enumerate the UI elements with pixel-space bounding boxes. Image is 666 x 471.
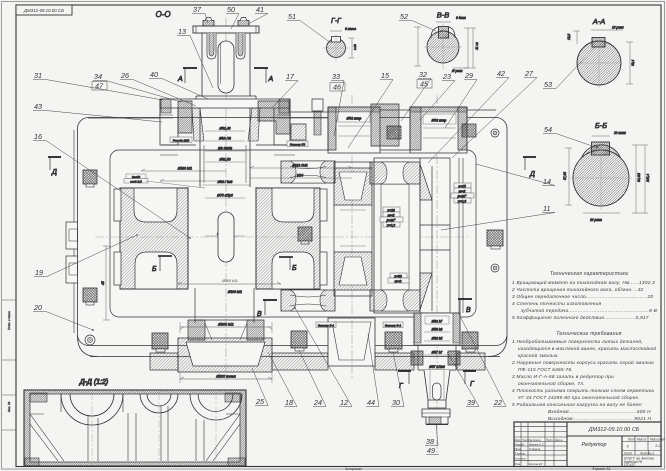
- svg-text:54: 54: [544, 125, 552, 134]
- axis 1 centerline: [225, 18, 227, 380]
- flange bolt left: [203, 18, 214, 27]
- section view Б-Б label: [595, 121, 607, 130]
- svg-text:Подп. и дата: Подп. и дата: [7, 311, 11, 330]
- oil sump under axis 1: [178, 338, 272, 372]
- Д-Д ribs: [88, 406, 204, 461]
- svg-text:Д: Д: [51, 169, 57, 176]
- svg-text:4 Степень точности изготовлени: 4 Степень точности изготовления: [512, 301, 602, 306]
- svg-text:М24: М24: [297, 174, 304, 178]
- section view В-В label: [437, 11, 450, 20]
- callout 11: [441, 204, 555, 230]
- svg-text:14: 14: [543, 177, 551, 186]
- svg-text:31: 31: [34, 71, 42, 80]
- svg-text:50: 50: [227, 5, 235, 14]
- svg-text:23: 23: [442, 72, 451, 81]
- svg-text:Ø38 h5: Ø38 h5: [431, 337, 443, 341]
- Д-Д label: [79, 379, 109, 386]
- svg-text:Козлов Е.Г.: Козлов Е.Г.: [529, 462, 544, 466]
- svg-text:з.ив: з.ив: [353, 44, 357, 51]
- svg-text:ПЗ-433: ПЗ-433: [624, 463, 635, 467]
- svg-text:окончательной сборке, 7л.: окончательной сборке, 7л.: [518, 380, 585, 386]
- section circle А-А: [567, 26, 635, 89]
- gear hub column with oval lightening hole: [188, 187, 256, 288]
- svg-text:Ø58 h8: Ø58 h8: [431, 328, 443, 332]
- big gear on axis 1 : right half: [256, 188, 327, 289]
- svg-text:45: 45: [420, 80, 429, 89]
- callout 50: [226, 5, 239, 29]
- svg-text:Ø62 клар: Ø62 клар: [431, 119, 447, 123]
- bearing sump under axis 2: [328, 318, 375, 366]
- svg-text:УГ-34 ГОСТ 24285-80 при оконча: УГ-34 ГОСТ 24285-80 при окончательной сб…: [518, 394, 640, 400]
- bolt boss on axis3 cap: [462, 124, 476, 137]
- svg-text:46: 46: [333, 83, 341, 92]
- svg-text:красной эмалью.: красной эмалью.: [518, 352, 559, 358]
- callout 40: [149, 70, 208, 99]
- svg-text:40: 40: [150, 70, 158, 79]
- axis1 cap bolts: [159, 99, 291, 118]
- callout 20: [33, 303, 94, 331]
- spool upper left of axis2: [281, 161, 335, 183]
- svg-text:ДМ312-09.10.00 СБ: ДМ312-09.10.00 СБ: [588, 427, 640, 433]
- callout 51: [287, 12, 331, 43]
- callout 29: [445, 71, 477, 128]
- svg-text:16 разм: 16 разм: [612, 26, 624, 30]
- callout 30: [391, 352, 404, 407]
- technical characteristics text: [511, 271, 657, 320]
- callout 52: [399, 12, 436, 31]
- svg-text:63,4: 63,4: [631, 60, 635, 66]
- gear2 hub band lines: [420, 158, 450, 313]
- svg-text:Ø196 h11: Ø196 h11: [227, 290, 242, 294]
- svg-text:Изм: Изм: [515, 438, 520, 442]
- housing inner contour: [110, 150, 476, 317]
- svg-text:Г-Г: Г-Г: [331, 18, 342, 25]
- svg-text:52: 52: [400, 12, 408, 21]
- svg-text:Ø62 клар: Ø62 клар: [346, 117, 362, 121]
- svg-text:4 Плоскость разъема покрыть то: 4 Плоскость разъема покрыть тонким слоем…: [512, 388, 654, 393]
- svg-text:Ø8 63/68: Ø8 63/68: [217, 147, 232, 151]
- svg-text:37: 37: [193, 5, 202, 14]
- svg-text:z=80: z=80: [393, 274, 402, 278]
- svg-text:Д-Д (1:2): Д-Д (1:2): [79, 379, 109, 386]
- section view Г-Г label: [331, 18, 342, 25]
- callout 37: [192, 5, 208, 23]
- svg-text:51: 51: [288, 12, 296, 21]
- svg-text:ПФ-115 ГОСТ 6465-76.: ПФ-115 ГОСТ 6465-76.: [518, 367, 573, 372]
- bolt boss section lower-left wall: [83, 288, 97, 305]
- gear2 web wedge top: [420, 164, 432, 200]
- svg-text:x=0,2: x=0,2: [386, 223, 396, 227]
- callout 53: [543, 46, 596, 89]
- Д-Д sectional view: [24, 379, 246, 466]
- gear2 rim spool top: [370, 162, 420, 184]
- svg-text:2 Наружные поверхности корпуса: 2 Наружные поверхности корпуса красить с…: [511, 359, 654, 365]
- svg-text:29: 29: [464, 71, 473, 80]
- cover top step lines: [88, 110, 496, 155]
- svg-text:Формат А1: Формат А1: [592, 467, 611, 471]
- svg-text:41 иг: 41 иг: [475, 42, 479, 50]
- axis3 top bearing cap: [410, 107, 467, 153]
- callout 14: [476, 164, 555, 186]
- svg-text:Б: Б: [292, 265, 297, 272]
- section flag Г right: [463, 371, 476, 388]
- gear2 rim inner edges: [381, 184, 409, 290]
- Д-Д bearing arch 1: [61, 394, 123, 425]
- svg-text:27: 27: [524, 69, 534, 78]
- svg-text:О-О: О-О: [155, 10, 170, 19]
- housing inner right wall lines: [459, 158, 463, 313]
- svg-text:42: 42: [497, 69, 505, 78]
- svg-text:Ø83 / 9н8: Ø83 / 9н8: [217, 180, 233, 184]
- bolt boss section right wall: [487, 230, 503, 249]
- svg-text:А: А: [268, 76, 274, 83]
- svg-text:z=15: z=15: [457, 184, 466, 188]
- callout 15: [348, 71, 393, 148]
- svg-text:Масса: Масса: [637, 438, 647, 442]
- svg-text:Лист: Лист: [623, 452, 633, 456]
- Д-Д corner braces: [30, 414, 240, 461]
- svg-text:Дата: Дата: [554, 438, 563, 442]
- callout 18: [268, 352, 297, 407]
- svg-text:Ø112 /042: Ø112 /042: [291, 164, 307, 168]
- svg-text:А-А: А-А: [592, 17, 606, 26]
- technical requirements text: [511, 331, 656, 421]
- svg-text:24: 24: [313, 398, 322, 407]
- svg-text:Ø180 h11: Ø180 h11: [177, 167, 192, 171]
- svg-text:Утв.: Утв.: [515, 462, 522, 466]
- axis 3 centerline: [436, 95, 438, 455]
- svg-text:3 Масло И-Г-А-68 залить в реду: 3 Масло И-Г-А-68 залить в редуктор при: [512, 374, 614, 379]
- svg-text:Лит.: Лит.: [627, 438, 636, 442]
- section flag Д left: [48, 157, 61, 176]
- callout 44: [366, 334, 379, 407]
- svg-text:30: 30: [392, 398, 400, 407]
- gear2 wheel white column: [374, 158, 420, 313]
- svg-text:17: 17: [286, 72, 295, 81]
- svg-text:49: 49: [427, 446, 435, 455]
- axis2 pinion upper hatched: [334, 168, 372, 205]
- callout 41: [248, 5, 268, 24]
- svg-text:345,4: 345,4: [646, 174, 650, 182]
- svg-text:Техническая характеристика: Техническая характеристика: [550, 271, 628, 277]
- bolt boss section bottom row 2: [291, 331, 307, 351]
- svg-text:Резьба М10: Резьба М10: [173, 139, 190, 143]
- svg-text:Пров.: Пров.: [515, 447, 523, 451]
- svg-text:33: 33: [332, 72, 340, 81]
- svg-text:Затвор Е4: Затвор Е4: [290, 143, 306, 147]
- housing bolt hole bottom right: [491, 264, 499, 272]
- dim line above Д-Д: [178, 279, 281, 284]
- section view А-А label: [592, 17, 606, 26]
- bolt boss section mid wall: [298, 227, 312, 244]
- section flag А left: [177, 68, 197, 83]
- svg-text:ДМ312-09.10.00 СБ: ДМ312-09.10.00 СБ: [23, 8, 64, 13]
- svg-text:Инв. №: Инв. №: [7, 401, 11, 412]
- axis2 shaft mid white: [334, 162, 372, 296]
- input shaft upper column: [196, 33, 256, 99]
- callout 38 49: [425, 424, 439, 455]
- svg-text:Иванов А.С.: Иванов А.С.: [529, 442, 545, 446]
- svg-text:m=2: m=2: [388, 213, 395, 217]
- axis1 mid column: [200, 108, 250, 187]
- axis1 lower hub and bottom bearing: [188, 288, 264, 340]
- housing left wall outer line: [73, 130, 75, 333]
- svg-text:2пв80: 2пв80: [131, 175, 141, 179]
- bolt boss section bottom row 1: [152, 333, 168, 352]
- callout 22: [459, 314, 506, 407]
- callout 24: [299, 350, 326, 407]
- svg-text:1 Вращающий момент на тихоходн: 1 Вращающий момент на тихоходном валу, Н…: [512, 279, 655, 285]
- svg-text:26: 26: [120, 71, 129, 80]
- top flange plate of input shaft: [193, 26, 259, 33]
- svg-text:38: 38: [426, 437, 434, 446]
- label box z=80: [388, 273, 409, 283]
- svg-text:Ø200 h11: Ø200 h11: [217, 323, 234, 327]
- svg-text:41: 41: [256, 5, 264, 14]
- svg-text:Затвор В-1: Затвор В-1: [318, 324, 335, 328]
- svg-text:№ докум.: № докум.: [529, 438, 542, 442]
- callout 42: [428, 69, 509, 163]
- section flag В left: [257, 300, 277, 318]
- central slot in shaft end: [218, 41, 234, 93]
- svg-text:авс1-0,2: авс1-0,2: [130, 180, 142, 184]
- svg-text:Ø92 Н8: Ø92 Н8: [218, 137, 231, 141]
- bolt boss section bottom row 3: [385, 332, 402, 352]
- svg-text:В: В: [257, 311, 262, 318]
- svg-text:32: 32: [419, 70, 427, 79]
- svg-text:Сидоров: Сидоров: [529, 447, 541, 451]
- callout 19: [34, 234, 138, 277]
- svg-text:20: 20: [33, 303, 42, 312]
- svg-text:z=28: z=28: [386, 208, 395, 212]
- svg-text:Ø57 h7: Ø57 h7: [431, 351, 443, 355]
- svg-text:18: 18: [285, 398, 293, 407]
- svg-text:2 Частота вращения тихоходного: 2 Частота вращения тихоходного вала, об/…: [511, 287, 644, 292]
- svg-text:3 Общее передаточное число....: 3 Общее передаточное число..............…: [512, 294, 654, 299]
- flange bolt right: [238, 18, 249, 27]
- svg-text:Ø61,48: Ø61,48: [218, 127, 230, 131]
- svg-text:Подп.: Подп.: [546, 438, 554, 442]
- section flag Б left: [152, 256, 172, 273]
- svg-text:Ø62 h7: Ø62 h7: [431, 320, 443, 324]
- Д-Д corner pads: [25, 393, 245, 466]
- svg-text:8 пазов: 8 пазов: [345, 27, 356, 31]
- gear mid horizontal centerline: [95, 236, 470, 238]
- svg-text:Листов 1: Листов 1: [639, 452, 654, 456]
- callout 12: [294, 307, 352, 407]
- gear2 rim spool bottom: [370, 290, 420, 311]
- svg-text:34: 34: [94, 72, 102, 81]
- gear2 web wedge bottom: [420, 273, 432, 310]
- stamp box top-left: [16, 5, 72, 15]
- label box z=28: [380, 207, 403, 227]
- svg-text:Б: Б: [152, 266, 157, 273]
- housing outer contour: [78, 118, 508, 357]
- section circle В-В: [414, 16, 479, 73]
- bottom foundation flange hatched band: [150, 353, 485, 370]
- svg-text:Б-Б: Б-Б: [595, 121, 607, 130]
- dim line d200 upper: [180, 322, 272, 333]
- callout 54: [543, 125, 595, 147]
- dim lines right of axis1: [250, 164, 352, 179]
- svg-text:Ø57 h7/л8: Ø57 h7/л8: [428, 365, 445, 369]
- Д-Д bearing arch 2: [140, 394, 178, 413]
- svg-text:1:1: 1:1: [655, 444, 660, 448]
- svg-text:20 нижн: 20 нижн: [613, 131, 626, 135]
- title block: [514, 422, 665, 467]
- label box 2пв80: [124, 174, 205, 188]
- dim lines above gear left: [101, 167, 226, 321]
- svg-text:x=0,3: x=0,3: [457, 199, 467, 203]
- svg-text:Т.контр.: Т.контр.: [515, 451, 527, 455]
- svg-text:57,65: 57,65: [563, 172, 567, 180]
- output shaft bottom section: [411, 313, 460, 370]
- svg-text:43: 43: [34, 102, 42, 111]
- housing bolt hole bottom left: [85, 335, 95, 345]
- svg-text:5 Коэффициент полезного действ: 5 Коэффициент полезного действия........…: [512, 314, 649, 320]
- axis2 pinion lower hatched: [334, 252, 372, 290]
- dim text stack in axis1 column: [202, 127, 250, 237]
- bearing label boxes: [170, 137, 403, 328]
- svg-text:11: 11: [543, 204, 550, 213]
- label box z=15: [451, 183, 474, 203]
- svg-text:Н.контр.: Н.контр.: [515, 457, 527, 461]
- callout 32 / 45: [401, 70, 432, 121]
- dim line d200 lower: [180, 372, 272, 383]
- svg-text:12: 12: [340, 398, 348, 407]
- spool lower left of axis2: [281, 290, 335, 311]
- axis1 top bearing unit: [160, 99, 323, 145]
- callout 17: [272, 72, 298, 108]
- svg-text:Масштаб: Масштаб: [650, 438, 665, 442]
- svg-text:18,8: 18,8: [567, 34, 571, 40]
- svg-text:Ø разм: Ø разм: [451, 69, 463, 73]
- Д-Д outer box: [24, 390, 246, 466]
- bolt boss section bottom row 4: [462, 332, 478, 352]
- svg-text:β=20°: β=20°: [456, 194, 467, 198]
- svg-text:39: 39: [467, 398, 475, 407]
- Д-Д bearing arch 3: [190, 394, 242, 420]
- svg-text:84,4М: 84,4М: [637, 173, 641, 182]
- svg-text:16: 16: [34, 132, 42, 141]
- svg-text:Технические требования: Технические требования: [556, 331, 622, 337]
- section circle Г-Г: [322, 27, 357, 62]
- svg-text:25: 25: [255, 397, 265, 406]
- bolt boss section upper-left wall: [83, 170, 97, 187]
- callout 25: [252, 368, 268, 406]
- svg-text:8 длин: 8 длин: [456, 16, 466, 20]
- svg-text:47: 47: [95, 82, 104, 91]
- big gear on axis 1 : left half: [114, 188, 188, 289]
- callout 13: [177, 27, 213, 88]
- svg-text:β=20°: β=20°: [385, 218, 396, 222]
- svg-text:m=2: m=2: [395, 279, 402, 283]
- dia note under gear: [227, 290, 242, 294]
- svg-text:m=2: m=2: [459, 189, 466, 193]
- svg-text:Ø300 h11: Ø300 h11: [221, 279, 238, 283]
- callout 31: [33, 71, 163, 100]
- callout 27: [452, 69, 537, 158]
- callout 34 / 47: [92, 72, 181, 102]
- section flag Г left: [398, 371, 411, 390]
- svg-text:22: 22: [493, 398, 502, 407]
- svg-text:15: 15: [381, 71, 390, 80]
- section flag А right: [254, 68, 274, 83]
- svg-text:45: 45: [101, 281, 105, 285]
- axis 2 centerline: [351, 95, 353, 380]
- svg-text:44: 44: [367, 398, 375, 407]
- callout 23: [420, 72, 455, 120]
- axis2 top bearing cap: [328, 104, 399, 153]
- output shaft taper: [424, 365, 450, 408]
- svg-text:19: 19: [35, 268, 43, 277]
- svg-text:Затвор В-1: Затвор В-1: [385, 324, 402, 328]
- section circle Б-Б: [563, 131, 650, 222]
- svg-text:5 Радиальная консольная нагруз: 5 Радиальная консольная нагрузка на валу…: [512, 402, 643, 407]
- lifting lug tabs left wall: [66, 222, 78, 283]
- svg-text:Копировал: Копировал: [345, 467, 362, 471]
- svg-text:13: 13: [178, 27, 186, 36]
- section flag Д right: [523, 157, 536, 178]
- svg-text:20 рима: 20 рима: [589, 218, 602, 222]
- callout 33 / 46: [330, 72, 345, 136]
- svg-text:Д: Д: [529, 171, 535, 178]
- svg-text:53: 53: [544, 80, 552, 89]
- svg-text:Выходном......................: Выходном................................…: [548, 416, 652, 421]
- format note below frame: [345, 467, 611, 471]
- callout 26: [120, 71, 196, 106]
- section view О-О label: [155, 10, 170, 19]
- svg-text:В: В: [466, 307, 471, 314]
- callout 16: [33, 132, 191, 239]
- svg-text:Редуктор: Редуктор: [581, 442, 606, 448]
- svg-text:Ø75 к7/р6: Ø75 к7/р6: [216, 194, 233, 198]
- bolt boss on axis2 cap: [387, 126, 401, 139]
- left margin column marks: [2, 300, 16, 430]
- svg-text:Ø81,58: Ø81,58: [218, 158, 230, 162]
- output shaft coupling flange: [422, 409, 450, 425]
- svg-text:зубчатой передачи.............: зубчатой передачи.......................…: [520, 307, 657, 313]
- section flag В right: [458, 299, 472, 314]
- Д-Д centerlines: [92, 392, 216, 464]
- svg-text:В-В: В-В: [437, 11, 450, 20]
- callout 39: [447, 352, 479, 407]
- section flag Б right: [279, 257, 297, 272]
- housing bolt hole top right: [491, 129, 499, 137]
- bolt hole slots in column: [207, 33, 245, 59]
- callout 43: [33, 102, 162, 122]
- svg-text:находящиеся в масляной ванне,: находящиеся в масляной ванне, красить ма…: [518, 345, 656, 351]
- svg-text:Разраб.: Разраб.: [515, 442, 525, 446]
- svg-text:Ø200 колап: Ø200 колап: [215, 375, 235, 379]
- svg-text:Входном.......................: Входном.................................…: [548, 409, 651, 414]
- svg-text:1 Необрабатываемые поверхности: 1 Необрабатываемые поверхности литых дет…: [512, 338, 643, 344]
- svg-text:А: А: [177, 76, 183, 83]
